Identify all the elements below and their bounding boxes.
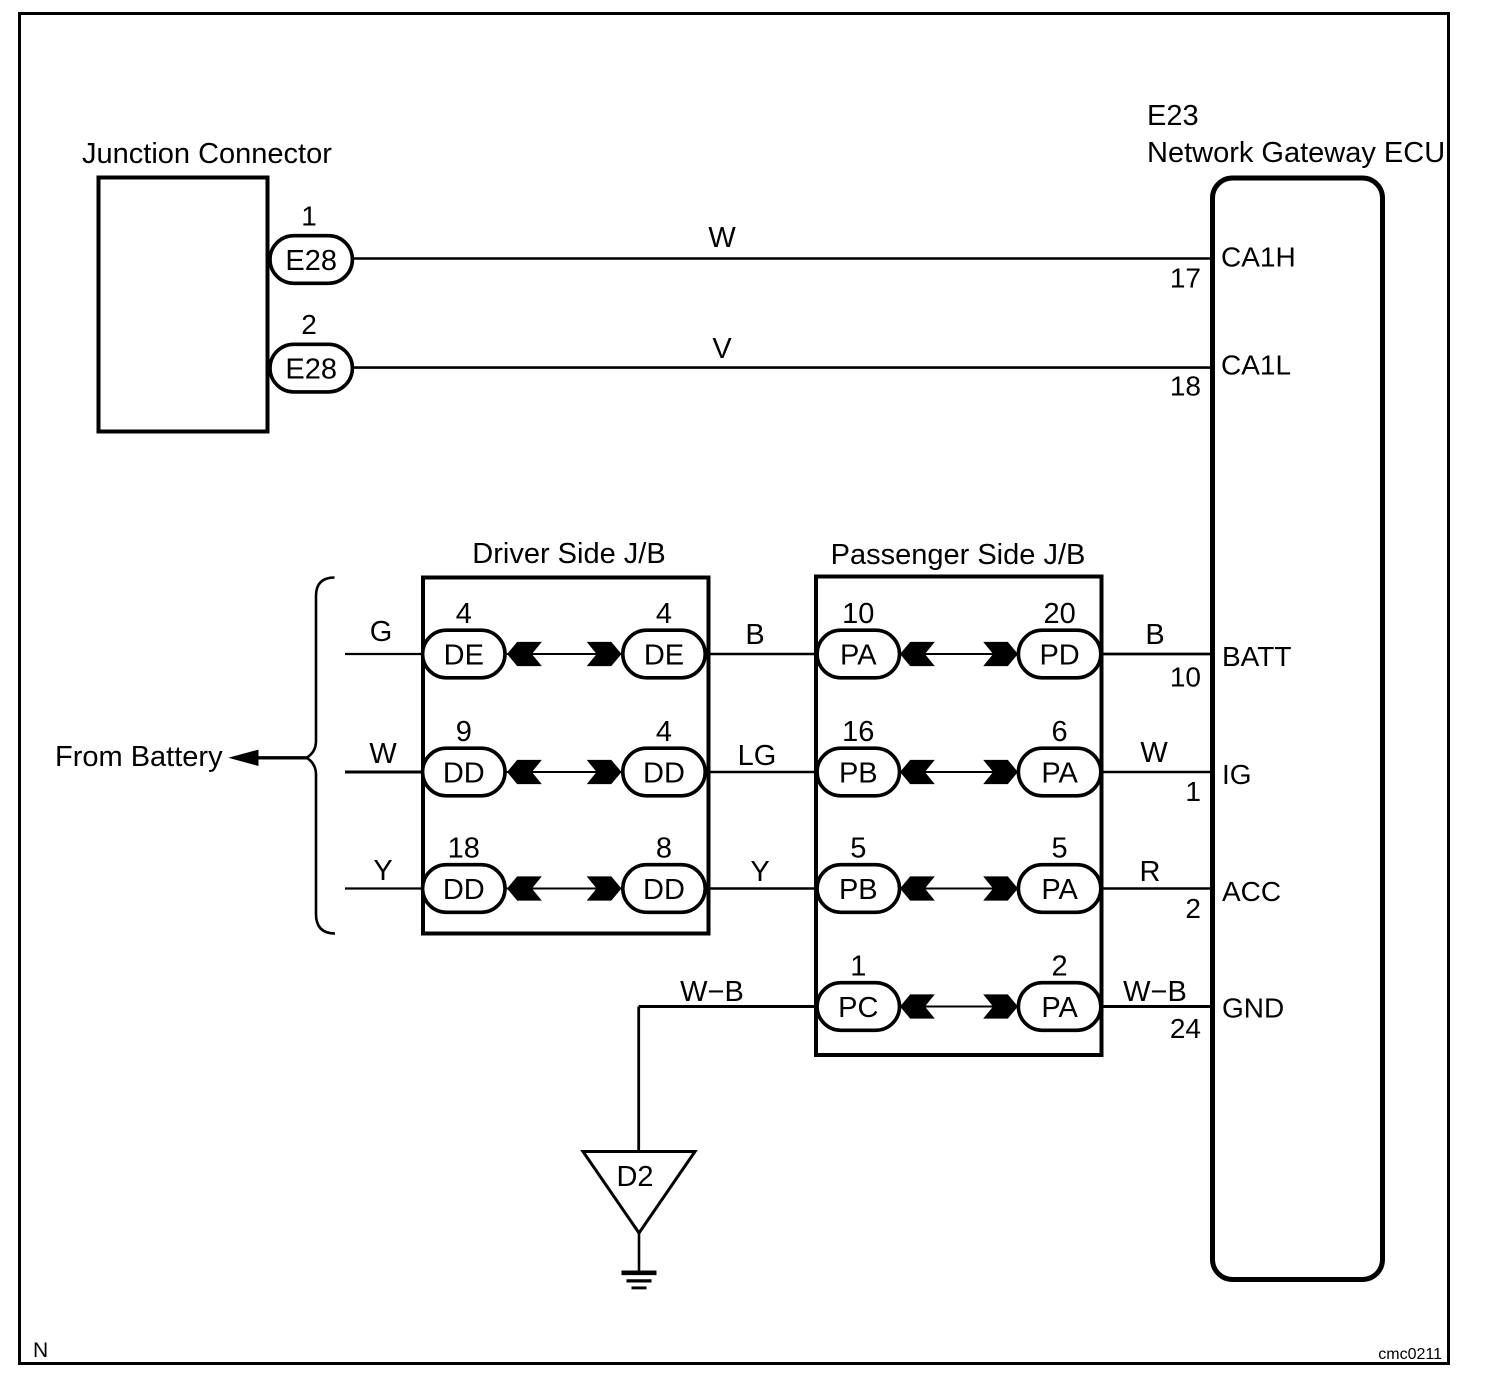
connector DD pin 4 (right): [623, 748, 705, 796]
svg-text:DD: DD: [443, 874, 485, 906]
svg-text:18: 18: [1170, 371, 1201, 402]
svg-text:PD: PD: [1039, 639, 1079, 671]
connector PB pin 5: [817, 865, 899, 913]
wire W-B down to ground D2: [637, 1007, 640, 1151]
ground symbol: [638, 1233, 641, 1271]
svg-text:24: 24: [1170, 1013, 1201, 1044]
ground triangle D2: [583, 1152, 695, 1234]
svg-text:PC: PC: [838, 992, 878, 1024]
svg-text:4: 4: [656, 598, 672, 630]
svg-text:6: 6: [1052, 716, 1068, 748]
svg-text:CA1H: CA1H: [1221, 242, 1296, 273]
wire B driver to passenger row 1: [709, 653, 817, 655]
connector PA pin 5: [1018, 865, 1100, 913]
connector PD pin 20: [1018, 630, 1100, 678]
svg-text:5: 5: [1052, 832, 1068, 864]
Passenger Side J/B box: [816, 577, 1102, 1056]
svg-text:G: G: [370, 616, 393, 648]
svg-text:9: 9: [456, 716, 472, 748]
svg-text:DE: DE: [644, 639, 684, 671]
wire W-B to passenger J/B row 4: [639, 1005, 816, 1008]
svg-text:2: 2: [1052, 950, 1068, 982]
svg-text:B: B: [745, 619, 764, 651]
connector PC pin 1: [817, 983, 899, 1031]
svg-text:E28: E28: [285, 353, 337, 385]
svg-text:PA: PA: [840, 639, 877, 671]
junction arrows row 1 passenger: [900, 653, 1019, 655]
svg-text:D2: D2: [616, 1161, 653, 1193]
svg-text:W−B: W−B: [680, 976, 744, 1008]
svg-text:W−B: W−B: [1123, 976, 1187, 1008]
svg-text:LG: LG: [738, 740, 777, 772]
svg-text:W: W: [369, 738, 397, 770]
wire V: E28 pin 2 to ECU CA1L: [352, 366, 1213, 369]
svg-text:10: 10: [842, 598, 874, 630]
svg-text:Y: Y: [373, 855, 392, 887]
svg-text:4: 4: [456, 598, 472, 630]
svg-text:20: 20: [1043, 598, 1075, 630]
svg-text:5: 5: [850, 832, 866, 864]
svg-text:From Battery: From Battery: [55, 741, 223, 773]
connector PA pin 6: [1018, 748, 1100, 796]
junction arrows row 3 driver: [505, 888, 623, 890]
junction arrows row 3 passenger: [900, 888, 1019, 890]
wire Y into driver J/B row 3: [345, 887, 423, 889]
connector DE pin 4 (left): [423, 630, 505, 678]
wire LG driver to passenger row 2: [709, 771, 817, 773]
junction arrows row 2 driver: [505, 771, 623, 773]
svg-text:Y: Y: [750, 856, 769, 888]
svg-text:W: W: [708, 222, 736, 254]
From Battery arrow: [252, 756, 307, 759]
svg-text:IG: IG: [1222, 759, 1252, 790]
svg-text:BATT: BATT: [1222, 641, 1291, 672]
svg-text:Passenger Side J/B: Passenger Side J/B: [831, 539, 1086, 571]
connector E28 pin 1: [270, 236, 352, 284]
svg-text:2: 2: [1185, 893, 1201, 924]
svg-text:Driver Side J/B: Driver Side J/B: [472, 538, 665, 570]
svg-text:PA: PA: [1041, 757, 1078, 789]
svg-text:R: R: [1140, 856, 1161, 888]
svg-text:GND: GND: [1222, 993, 1284, 1024]
svg-text:16: 16: [842, 716, 874, 748]
ECU E23 Network Gateway ECU box: [1213, 178, 1383, 1280]
svg-text:DD: DD: [643, 757, 685, 789]
junction connector box: [99, 178, 268, 432]
connector PB pin 16: [817, 748, 899, 796]
svg-text:10: 10: [1170, 662, 1201, 693]
svg-text:4: 4: [656, 716, 672, 748]
svg-text:1: 1: [1185, 776, 1201, 807]
wire W-B passenger to ECU GND: [1102, 1005, 1213, 1008]
connector DD pin 9: [423, 748, 505, 796]
wire W passenger to ECU IG: [1102, 771, 1213, 774]
svg-text:N: N: [33, 1339, 48, 1362]
connector E28 pin 2: [270, 344, 352, 392]
connector PA pin 10: [817, 630, 899, 678]
svg-text:E28: E28: [285, 245, 337, 277]
svg-text:1: 1: [301, 201, 317, 232]
junction arrows row 4 passenger: [900, 1006, 1019, 1008]
svg-text:PB: PB: [839, 757, 878, 789]
svg-text:PA: PA: [1041, 874, 1078, 906]
wire G into driver J/B row 1: [345, 653, 423, 655]
wire Y driver to passenger row 3: [709, 887, 817, 889]
svg-text:PA: PA: [1041, 992, 1078, 1024]
connector PA pin 2: [1018, 983, 1100, 1031]
junction arrows row 2 passenger: [900, 771, 1019, 773]
svg-text:ACC: ACC: [1222, 876, 1281, 907]
wire W into driver J/B row 2: [345, 771, 423, 774]
svg-text:1: 1: [850, 950, 866, 982]
svg-text:CA1L: CA1L: [1221, 350, 1291, 381]
svg-text:8: 8: [656, 832, 672, 864]
junction arrows row 1 driver: [505, 653, 623, 655]
svg-text:DD: DD: [643, 874, 685, 906]
svg-text:W: W: [1140, 737, 1168, 769]
svg-text:B: B: [1145, 619, 1164, 651]
svg-text:Junction Connector: Junction Connector: [82, 138, 332, 170]
svg-text:E23: E23: [1147, 100, 1199, 132]
connector DD pin 8: [623, 865, 705, 913]
wire W: E28 pin 1 to ECU CA1H: [352, 257, 1213, 260]
svg-text:DD: DD: [443, 757, 485, 789]
svg-text:DE: DE: [444, 639, 484, 671]
svg-text:Network Gateway ECU: Network Gateway ECU: [1147, 137, 1445, 169]
connector DD pin 18: [423, 865, 505, 913]
svg-text:V: V: [712, 333, 732, 365]
connector DE pin 4 (right): [623, 630, 705, 678]
svg-text:PB: PB: [839, 874, 878, 906]
svg-text:17: 17: [1170, 263, 1201, 294]
svg-text:18: 18: [448, 832, 480, 864]
svg-text:cmc0211: cmc0211: [1378, 1346, 1442, 1363]
svg-text:2: 2: [301, 309, 317, 340]
wire R passenger to ECU ACC: [1102, 887, 1213, 889]
Driver Side J/B box: [423, 578, 709, 934]
brace left of driver J/B: [307, 578, 336, 934]
wire B passenger to ECU BATT: [1102, 653, 1213, 656]
